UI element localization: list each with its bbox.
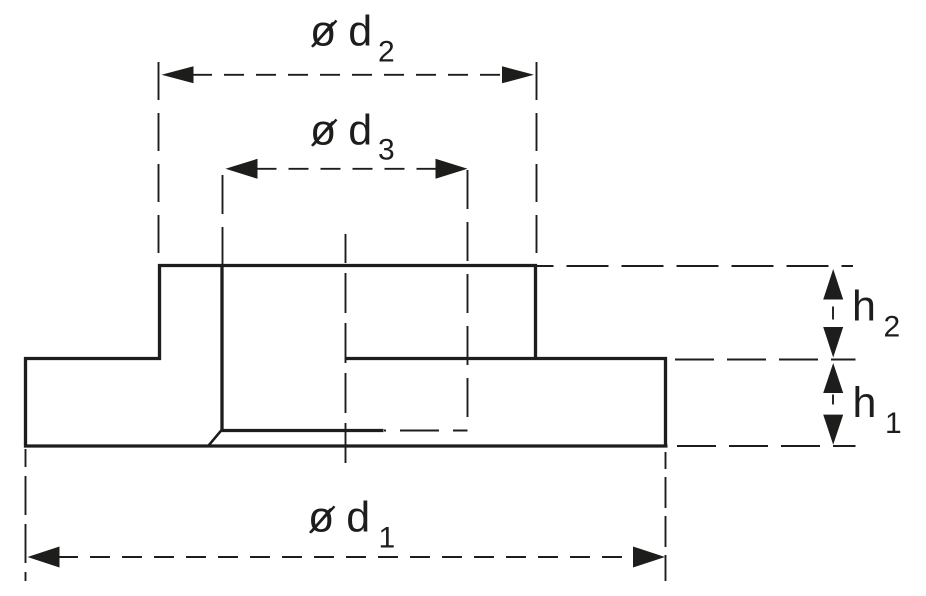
arrowheads xyxy=(28,66,844,567)
thin dashed construction lines xyxy=(26,62,856,581)
wire right shelf xyxy=(345,357,667,360)
wire bore bottom solid xyxy=(221,429,384,432)
wire left shelf xyxy=(24,357,161,360)
dimension line d2 xyxy=(192,74,503,76)
slash of ø (d2) xyxy=(312,21,337,47)
wire boss right edge xyxy=(534,264,537,360)
wire boss top xyxy=(158,264,537,267)
svg-text:ø d: ø d xyxy=(310,107,372,155)
bore bottom hidden line xyxy=(384,430,468,432)
arrow h1 down xyxy=(823,415,843,445)
arrow d1 left xyxy=(28,547,60,568)
arrow d2 left xyxy=(162,66,194,83)
slash of ø (d1) xyxy=(310,506,335,533)
d2 left extension line xyxy=(158,62,160,264)
slash of ø (d3) xyxy=(312,120,337,146)
h2 dimension stub xyxy=(832,307,834,320)
h bottom extension dashed xyxy=(667,445,856,447)
svg-text:ø d: ø d xyxy=(308,494,370,542)
arrow d1 right xyxy=(633,547,665,568)
wire bore chamfer xyxy=(208,429,223,447)
wire right outer edge xyxy=(664,357,667,448)
svg-text:ø d: ø d xyxy=(310,8,372,56)
arrow h2 up xyxy=(823,269,843,300)
svg-text:1: 1 xyxy=(885,407,902,440)
svg-text:3: 3 xyxy=(378,134,395,167)
arrow d3 left xyxy=(226,159,258,179)
dimension line d3 xyxy=(257,168,437,170)
arrow h1 up xyxy=(823,363,843,393)
h2 top extension dashed xyxy=(537,265,853,267)
slash extenders for the diameter symbols xyxy=(310,21,337,533)
svg-text:h: h xyxy=(853,379,877,427)
d1 right extension line xyxy=(665,452,667,581)
svg-text:1: 1 xyxy=(379,522,396,555)
arrow d2 right xyxy=(502,66,534,83)
arrow h2 down xyxy=(823,327,843,358)
wire bottom edge xyxy=(24,444,668,447)
svg-text:2: 2 xyxy=(378,36,395,69)
h mid extension dashed xyxy=(663,359,856,361)
wire boss left edge xyxy=(158,264,161,360)
arrow d3 right xyxy=(436,159,468,179)
h1 dimension stub xyxy=(832,395,834,405)
d1 left extension line xyxy=(25,449,27,581)
wire bore left edge xyxy=(220,264,223,430)
dimension line d1 xyxy=(58,556,634,558)
part outline: flange cross-section, thick lines xyxy=(24,264,668,448)
centerline xyxy=(345,234,347,464)
d2 right extension line xyxy=(536,62,538,264)
svg-text:2: 2 xyxy=(884,311,901,344)
svg-text:h: h xyxy=(852,282,876,330)
d3 left extension line xyxy=(222,175,224,264)
d3 right extension line xyxy=(467,170,469,430)
wire left outer edge xyxy=(24,357,27,448)
